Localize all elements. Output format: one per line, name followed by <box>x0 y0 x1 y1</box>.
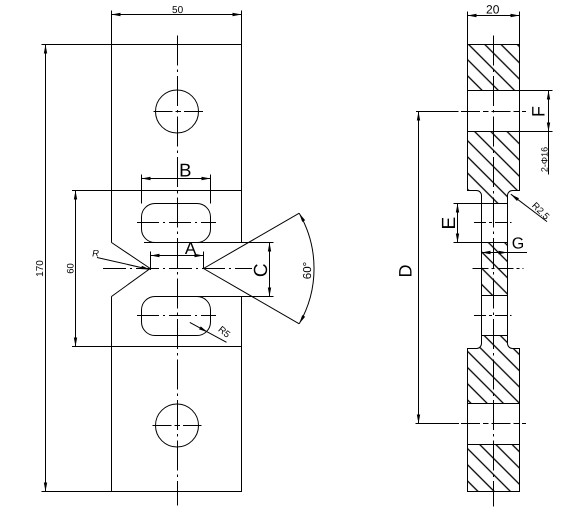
svg-text:A: A <box>185 239 197 258</box>
svg-text:F: F <box>529 106 549 117</box>
svg-text:60°: 60° <box>302 262 314 279</box>
svg-text:E: E <box>439 217 460 230</box>
svg-text:20: 20 <box>486 3 500 17</box>
svg-text:G: G <box>512 235 524 252</box>
svg-text:R: R <box>92 248 99 259</box>
svg-text:2-Φ16: 2-Φ16 <box>539 147 549 172</box>
svg-text:50: 50 <box>172 5 184 16</box>
svg-text:C: C <box>251 263 272 277</box>
svg-text:170: 170 <box>35 260 46 277</box>
svg-text:D: D <box>396 265 416 278</box>
svg-text:B: B <box>179 160 191 181</box>
svg-text:60: 60 <box>66 263 77 274</box>
